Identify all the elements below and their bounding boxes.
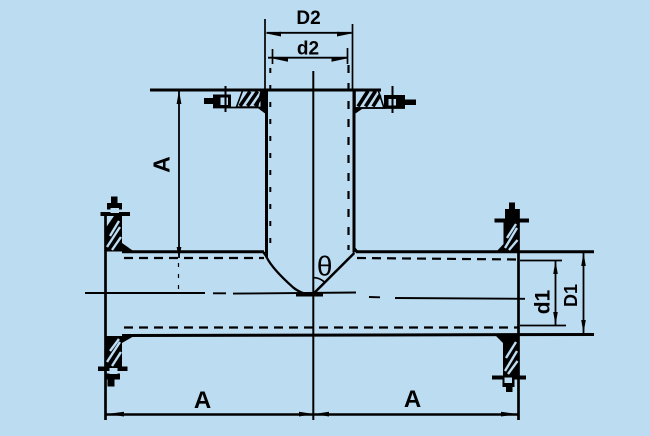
dimension D2 line [267,32,352,34]
dimension d1 bottom arrow [553,312,558,325]
left flange bottom stud [108,380,115,387]
theta angle arc [313,278,325,283]
bottom dimension center right arrow [314,412,329,417]
dimension D1 line [583,253,585,334]
dimension d1 bottom extension [520,325,566,327]
dimension d1 top arrow [553,261,558,274]
dimension A dashed continuation [178,263,180,292]
right flange bottom washer [492,376,526,380]
right flange top hatched section [496,223,519,253]
right flange bottom stud [506,387,513,392]
dimension D1 bottom arrow [581,320,586,333]
dimension D2 left extension line [264,19,266,90]
vertical branch centerline [312,71,314,420]
svg-text:D2: D2 [296,8,320,29]
bottom dimension right arrow [501,412,518,417]
top flange right stud [405,100,416,106]
left flange top washer [101,212,131,216]
main pipe top edge right segment with D1 extension [356,250,594,253]
svg-text:A: A [194,387,211,414]
top flange left nut [213,95,231,108]
branch cone right line [313,253,355,294]
main pipe bore top hidden line right [357,258,519,260]
left flange top nut [107,203,122,210]
left flange top stud [111,197,118,204]
svg-text:D1: D1 [561,284,581,307]
top flange left hatched section [237,90,267,108]
dimension d2 left extension tick [272,49,274,64]
right flange top washer [495,219,530,223]
main pipe bore bottom hidden line [124,326,519,328]
main pipe top edge left segment [122,250,264,253]
bottom dimension center left arrow [299,412,314,417]
svg-text:θ: θ [317,251,333,282]
main pipe bottom edge [122,335,594,336]
dimension d1 line [555,261,557,325]
svg-text:d1: d1 [532,289,555,314]
dimension d2 line [268,57,347,59]
junction vertex blob [296,293,323,296]
left flange top fillet [122,243,134,252]
dimension D2 right arrow [337,32,353,37]
top flange right hatched section [355,90,384,109]
dimension d1 top extension [520,260,562,262]
svg-text:d2: d2 [297,39,319,60]
right wall fillet [354,246,359,253]
branch bore right hidden line [347,65,349,250]
dimension d2 left arrow [273,57,288,62]
right flange bottom hatched section [496,336,519,376]
left flange bottom nut [106,374,120,380]
svg-text:A: A [149,156,175,173]
dimension d2 right arrow [332,57,347,62]
top flange left bolt axis [225,86,227,112]
left flange bottom fillet [122,336,134,343]
dimension A top arrow [177,91,182,105]
main pipe bore top hidden line left [124,257,264,259]
right flange bottom nut [503,380,515,388]
dimension D2 left arrow [266,32,282,37]
horizontal centerline [85,293,525,299]
svg-text:A: A [404,386,421,413]
branch pipe left wall [265,90,268,258]
top flange face line [150,89,381,92]
top flange left stud [204,98,214,104]
dimension A vertical line [178,91,180,258]
dimension D2 right extension line [352,24,354,89]
top flange left underside line [213,107,263,109]
top flange right bolt axis [392,86,394,113]
top flange right underside line [355,107,405,109]
right flange face line [517,209,520,420]
bottom dimension left arrow [107,412,124,417]
branch cone left curve [267,258,313,295]
right flange top nut [505,209,518,219]
right flange top stud [509,203,515,210]
left flange top hatched section [105,216,122,252]
left flange face line [104,216,107,420]
top flange right underside fillet [354,108,364,115]
dimension A bottom arrow [177,247,182,259]
top flange right nut [384,95,405,108]
left flange bottom washer [98,367,128,372]
dimension D1 top arrow [581,253,586,267]
dimension d2 right extension tick [347,48,349,64]
top flange left underside fillet [257,108,267,115]
left wall fillet [262,252,267,259]
branch pipe right wall [353,89,356,253]
left flange bottom hatched section [105,336,122,368]
branch bore left hidden line [269,68,271,251]
bottom dimension line [107,413,519,416]
